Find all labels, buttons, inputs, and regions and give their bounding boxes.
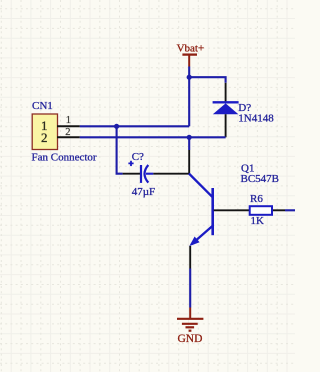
pin 1 lead: [235, 209, 249, 211]
wire Vbat to pin1 rail: [188, 67, 190, 127]
power port Vbat+: [177, 42, 205, 66]
diode D? 1N4148: [213, 83, 275, 138]
emitter pin: [189, 246, 191, 269]
ground bar 2: [182, 323, 198, 325]
cathode bar: [213, 101, 239, 103]
base bar: [211, 188, 214, 235]
wire to diode cathode: [189, 77, 225, 83]
ground bar 1: [177, 318, 203, 320]
collector pin: [188, 150, 190, 174]
wire capacitor branch: [117, 126, 123, 173]
svg-text:2: 2: [65, 127, 70, 138]
ground bar 3: [186, 326, 195, 328]
svg-text:Fan Connector: Fan Connector: [32, 152, 97, 164]
svg-text:C?: C?: [132, 151, 144, 163]
capacitor pin 2 lead: [153, 173, 189, 175]
anode triangle: [213, 103, 239, 114]
base pin: [214, 209, 235, 211]
collector lead: [189, 174, 213, 198]
svg-text:47µF: 47µF: [132, 186, 155, 198]
pin 2 (anode): [225, 114, 227, 137]
svg-text:Vbat+: Vbat+: [177, 42, 205, 54]
svg-text:1K: 1K: [251, 215, 265, 227]
wire pin1 rail: [80, 125, 189, 127]
junction capacitor branch: [114, 124, 119, 129]
wire emitter to GND: [189, 269, 191, 308]
junction collector branch: [187, 135, 192, 140]
power port GND: [177, 308, 203, 346]
pin 1 lead: [57, 125, 80, 127]
negative plate (curved): [145, 165, 149, 183]
junction Vbat/diode branch: [187, 75, 192, 80]
emitter arrow: [189, 237, 199, 247]
capacitor C? 47uF: [123, 151, 156, 198]
pin 1 (+): [123, 173, 140, 175]
svg-text:1N4148: 1N4148: [238, 113, 274, 125]
wire junction to collector pin: [188, 137, 190, 150]
svg-text:1: 1: [66, 115, 71, 126]
pin 1 (cathode): [225, 83, 227, 102]
pin 2 lead: [57, 136, 80, 138]
transistor Q1 BC547B: [189, 150, 279, 269]
svg-text:R6: R6: [250, 193, 263, 205]
pin 2 lead: [273, 209, 285, 211]
connector CN1 Fan Connector: [32, 100, 97, 164]
positive plate: [140, 165, 142, 183]
wire R6 to sheet edge: [285, 209, 295, 211]
ground bar 4: [189, 330, 192, 332]
resistor R6 1K: [235, 193, 285, 227]
connector body: [32, 114, 57, 150]
svg-text:2: 2: [41, 130, 48, 145]
svg-text:GND: GND: [178, 333, 203, 345]
pin 2 lead stub: [146, 173, 153, 175]
power pin: [189, 308, 191, 319]
svg-text:BC547B: BC547B: [241, 173, 280, 185]
svg-text:CN1: CN1: [32, 100, 53, 112]
plus sign: [128, 161, 133, 166]
wire pin2 rail: [80, 136, 226, 138]
emitter lead: [192, 226, 213, 245]
resistor body: [250, 206, 272, 215]
